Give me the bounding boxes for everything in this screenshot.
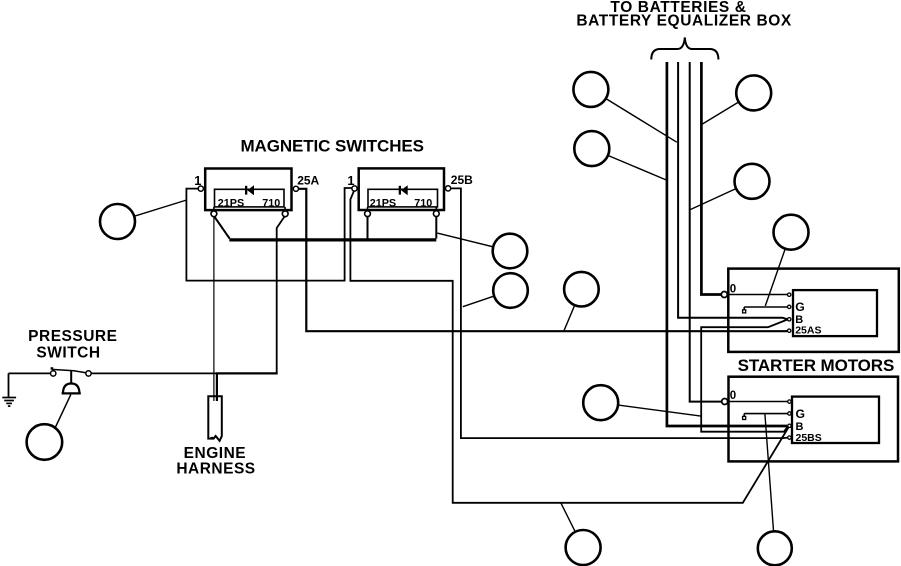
leader line balloon to terminal 1 wire — [117, 200, 186, 222]
starter motor 2 pins — [788, 400, 791, 403]
label ENGINE HARNESS — [176, 445, 255, 478]
starter motor 2 box — [729, 377, 899, 462]
wire thick bus under magnetic switches — [229, 238, 436, 241]
balloon callout 9 — [564, 272, 599, 307]
wire battery line 4 (to starter 1 terminal 0) — [701, 62, 721, 295]
leader line balloon to 25B wire — [463, 291, 511, 307]
svg-text:21PS: 21PS — [218, 197, 244, 209]
balloon callout 6 — [100, 204, 135, 239]
balloon callout 10 — [583, 385, 618, 420]
starter motor 1 box — [728, 269, 899, 352]
leader line balloon top-left — [591, 89, 677, 142]
wire 25A to 25AS — [296, 189, 789, 331]
balloon callout 2 — [574, 131, 609, 166]
svg-text:ENGINE: ENGINE — [184, 445, 246, 462]
svg-text:PRESSURE: PRESSURE — [28, 328, 117, 345]
balloon callout 1 — [573, 72, 608, 107]
wire G stub starter 2 — [744, 413, 788, 415]
wire battery line 1 (leftmost vertical to starter 2 B) — [667, 62, 787, 426]
balloon callout 12 — [566, 530, 601, 565]
svg-text:25BS: 25BS — [796, 432, 822, 444]
wire switch 1 right bottom terminal to engine harness — [277, 216, 285, 372]
wire switch 2 right bottom terminal to bus — [435, 216, 437, 238]
leader line balloon to harness B wire — [561, 503, 583, 548]
svg-text:BATTERY EQUALIZER BOX: BATTERY EQUALIZER BOX — [576, 12, 792, 29]
wire battery line 3 (to starter 2 terminal 0) — [690, 62, 722, 402]
leader line balloon to B jumper — [601, 403, 701, 416]
starter motor 1 G stub terminal — [743, 310, 746, 313]
svg-text:25B: 25B — [451, 173, 473, 187]
svg-text:SWITCH: SWITCH — [36, 344, 100, 361]
label TO BATTERIES & BATTERY EQUALIZER BOX — [576, 0, 792, 29]
wire junction to engine harness — [217, 373, 278, 401]
wire pressure switch to engine harness junction — [91, 372, 217, 374]
starter motor 2 G stub terminal — [743, 416, 746, 419]
leader line balloon to 25A wire — [564, 289, 581, 331]
wire switch 2 left bottom terminal to bus — [367, 216, 369, 238]
diode magnetic switch 2 — [399, 186, 401, 195]
wire switch 1 left bottom terminal to engine harness — [213, 217, 215, 401]
starter motor 1 pins — [788, 293, 791, 296]
svg-text:STARTER MOTORS: STARTER MOTORS — [738, 356, 895, 375]
leader line balloon to pressure sensor — [55, 395, 71, 428]
svg-text:1: 1 — [194, 173, 201, 188]
svg-text:G: G — [795, 300, 804, 314]
diode magnetic switch 1 — [245, 186, 247, 195]
leader line balloon to starter 2 G stub — [765, 414, 775, 549]
pressure switch blade — [52, 369, 87, 373]
wire terminal 1 interconnect (switch 1 to switch 2) — [186, 188, 352, 281]
starter motor 1 terminal 0 — [721, 292, 727, 298]
magnetic switch 1 terminals — [198, 186, 203, 191]
balloon callout 5 — [774, 215, 809, 250]
starter motor 2 terminal 0 — [722, 399, 728, 405]
wire starter 1 terminal 0 to pin — [727, 294, 788, 296]
leader line balloon right wire 3 — [691, 181, 753, 209]
svg-text:25AS: 25AS — [795, 325, 821, 337]
wire B jumper starter 1 to starter 2 — [701, 320, 788, 432]
wire 25B to 25BS — [448, 188, 787, 438]
wire G stub starter 1 — [744, 306, 788, 308]
magnetic switch 1 box — [205, 169, 291, 211]
wire battery line 2 (to starter 1 B) — [678, 62, 787, 319]
pressure switch contacts — [51, 371, 56, 376]
wire switch 2 terminal 1 to starter 2 B — [350, 191, 789, 503]
balloon callout 11 — [27, 424, 63, 460]
ground — [8, 373, 10, 396]
svg-text:1: 1 — [347, 173, 354, 188]
svg-text:710: 710 — [414, 197, 432, 209]
leader line balloon to switch 2 bottom terminal wire — [437, 233, 510, 251]
wire pressure switch to ground — [9, 372, 51, 374]
svg-text:0: 0 — [730, 390, 736, 402]
svg-text:25A: 25A — [297, 174, 319, 188]
wire starter 2 terminal 0 to pin — [728, 401, 789, 403]
pressure sensor bell — [63, 384, 79, 394]
leader line balloon top-right — [702, 93, 754, 124]
svg-text:HARNESS: HARNESS — [176, 461, 255, 478]
svg-text:G: G — [796, 407, 805, 421]
engine harness — [208, 396, 222, 441]
balloon callout 8 — [493, 273, 528, 308]
svg-text:21PS: 21PS — [370, 197, 396, 209]
leader line balloon mid-left — [592, 149, 667, 181]
magnetic switch 2 box — [359, 168, 444, 210]
wire switch 1 left bottom terminal to bus — [214, 217, 229, 239]
svg-text:0: 0 — [730, 284, 736, 296]
magnetic switch 2 terminals — [352, 186, 357, 191]
balloon callout 13 — [758, 531, 792, 565]
svg-text:MAGNETIC SWITCHES: MAGNETIC SWITCHES — [240, 137, 423, 156]
leader line balloon to starter 1 G stub — [765, 232, 791, 306]
balloon callout 3 — [736, 75, 771, 110]
brace over battery wires — [651, 38, 718, 60]
label PRESSURE SWITCH — [28, 328, 117, 362]
balloon callout 4 — [735, 164, 770, 199]
balloon callout 7 — [493, 234, 528, 269]
svg-text:710: 710 — [262, 197, 280, 209]
